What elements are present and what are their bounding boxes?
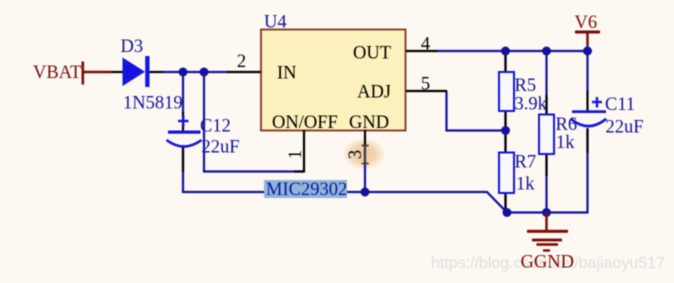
svg-text:1: 1 <box>286 150 306 159</box>
svg-text:C12: C12 <box>200 117 231 137</box>
svg-text:ADJ: ADJ <box>357 83 391 103</box>
svg-text:3.9k: 3.9k <box>515 95 548 115</box>
svg-text:R5: R5 <box>515 76 537 96</box>
svg-text:1k: 1k <box>556 133 575 153</box>
svg-text:1N5819: 1N5819 <box>123 94 183 114</box>
svg-text:22uF: 22uF <box>606 118 644 138</box>
svg-text:V6: V6 <box>575 13 598 33</box>
svg-text:OUT: OUT <box>353 44 391 64</box>
svg-text:R6: R6 <box>556 115 578 135</box>
svg-text:C11: C11 <box>605 95 635 115</box>
svg-text:MIC29302: MIC29302 <box>266 180 347 200</box>
svg-text:2: 2 <box>237 52 246 72</box>
svg-text:R7: R7 <box>515 153 537 173</box>
svg-text:IN: IN <box>277 64 297 84</box>
svg-text:VBAT: VBAT <box>33 63 81 83</box>
svg-text:1k: 1k <box>516 175 535 195</box>
svg-text:4: 4 <box>421 35 430 55</box>
svg-text:ON/OFF: ON/OFF <box>272 113 338 133</box>
svg-text:GGND: GGND <box>521 253 574 273</box>
svg-text:D3: D3 <box>121 37 144 57</box>
svg-text:3: 3 <box>346 150 366 159</box>
svg-text:5: 5 <box>421 75 430 95</box>
svg-text:22uF: 22uF <box>202 138 240 158</box>
svg-text:U4: U4 <box>264 13 287 33</box>
svg-text:GND: GND <box>349 113 389 133</box>
